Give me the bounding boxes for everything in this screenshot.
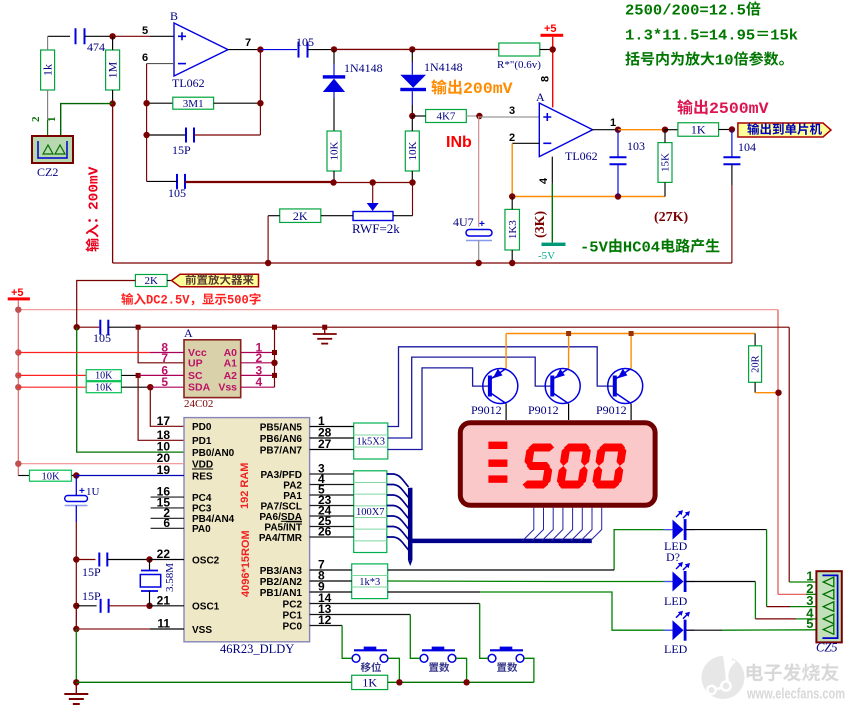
capacitor 104	[731, 130, 733, 158]
svg-text:PB1/AN1: PB1/AN1	[260, 588, 303, 599]
resistor 10K pullup SCL	[15, 372, 21, 378]
LED D2	[388, 580, 565, 583]
svg-text:46R23_DLDY: 46R23_DLDY	[220, 642, 294, 656]
tag from preamp	[172, 274, 259, 287]
resistor 15K	[658, 143, 672, 183]
node diode1 top	[331, 46, 337, 52]
wire ground down left	[75, 606, 77, 629]
wire pin2	[512, 142, 539, 144]
svg-text:A1: A1	[224, 357, 238, 369]
svg-text:15P: 15P	[82, 565, 101, 579]
wire Vcc row	[15, 349, 21, 355]
wire top rail	[334, 48, 412, 50]
node junction 1M bottom	[109, 100, 115, 106]
svg-text:PA1: PA1	[283, 491, 302, 502]
wires buttons to ground rail	[388, 658, 399, 682]
svg-text:PA5/INT: PA5/INT	[264, 522, 302, 533]
svg-text:+: +	[479, 219, 485, 230]
svg-text:A2: A2	[224, 370, 238, 382]
svg-text:7: 7	[245, 37, 251, 49]
capacitor 15P	[147, 134, 185, 136]
svg-text:PA6/SDA: PA6/SDA	[259, 512, 302, 523]
svg-text:A: A	[184, 326, 193, 340]
wires 24C02 right pins to ground column	[241, 352, 275, 354]
svg-text:PC2: PC2	[283, 599, 303, 610]
power +5 digital	[8, 297, 30, 300]
svg-text:2500/200=12.5: 2500/200=12.5	[625, 2, 746, 19]
display DS1	[460, 423, 655, 506]
svg-text:1U: 1U	[86, 486, 100, 498]
resistor 1M	[106, 50, 120, 90]
capacitor 103	[617, 130, 619, 157]
svg-text:103: 103	[627, 139, 645, 153]
resistor network 1k*3	[352, 564, 388, 599]
connector CZ2	[32, 136, 73, 163]
svg-text:+5: +5	[544, 23, 557, 35]
svg-text:PB3/AN3: PB3/AN3	[260, 566, 303, 577]
svg-text:1M: 1M	[106, 61, 120, 78]
label output 200mV	[431, 79, 513, 98]
label input 200mV	[86, 166, 103, 252]
diode D1 1N4148	[333, 49, 335, 64]
svg-text:200mV: 200mV	[87, 166, 103, 210]
svg-text:10K: 10K	[407, 141, 419, 160]
svg-text:+5: +5	[11, 287, 24, 299]
node 2K drop	[74, 324, 80, 330]
svg-text:-5V: -5V	[538, 250, 555, 262]
wire +5 right vertical to CZ5 pin2	[777, 310, 779, 595]
wire 105 to 24C02 UP pin7	[138, 327, 184, 363]
node INb	[476, 113, 482, 119]
wire node to opamp pin5	[113, 35, 150, 37]
svg-text:PB7/AN7: PB7/AN7	[260, 445, 303, 456]
wires PC2/PC1/PC0 to buttons	[310, 603, 480, 605]
ground symbol mid	[322, 325, 327, 330]
resistor network 100X7	[354, 471, 387, 553]
capacitor 474	[75, 28, 77, 44]
wire left ground column	[75, 560, 77, 606]
svg-text:www.elecfans.com: www.elecfans.com	[746, 687, 845, 703]
wire left feedback rail	[112, 104, 114, 263]
wire +5 horizontal rail	[18, 309, 778, 311]
svg-text:1N4148: 1N4148	[344, 61, 383, 75]
svg-text:PC0: PC0	[283, 621, 303, 632]
svg-text:PA3/PFD: PA3/PFD	[261, 470, 303, 481]
svg-text:Vss: Vss	[218, 382, 237, 394]
wire pin3	[479, 116, 539, 118]
svg-text:2K: 2K	[293, 209, 308, 223]
power -5V	[542, 243, 566, 246]
svg-text:3.58M: 3.58M	[164, 563, 176, 592]
power +5 analog	[541, 34, 564, 37]
svg-text:1k: 1k	[41, 64, 55, 76]
svg-text:8: 8	[540, 76, 552, 82]
potentiometer RWF=2k	[372, 183, 374, 204]
svg-text:2: 2	[30, 116, 42, 122]
svg-text:4K7: 4K7	[436, 111, 455, 123]
wires 1k5X3 to transistor bases	[388, 347, 614, 427]
resistor 10K reset	[18, 475, 29, 477]
svg-text:D?: D?	[666, 550, 680, 564]
wire collectors to display	[505, 404, 507, 420]
wire RES row	[76, 475, 184, 477]
display leading digit bars	[488, 442, 507, 449]
svg-text:RWF=2k: RWF=2k	[352, 221, 400, 236]
svg-text:PA2: PA2	[283, 480, 302, 491]
svg-text:20R: 20R	[751, 355, 762, 373]
wire CZ2 pin1 to node	[61, 104, 113, 136]
svg-text:15k: 15k	[770, 27, 798, 44]
svg-text:(3K): (3K)	[533, 210, 548, 238]
wire pin2 orange loop	[511, 143, 513, 196]
svg-text:VDD: VDD	[192, 460, 213, 471]
resistor 4K7	[426, 110, 467, 123]
wire feedback vertical	[259, 50, 261, 135]
capacitor 15P osc1	[73, 603, 79, 609]
svg-text:3M1: 3M1	[183, 98, 204, 110]
svg-text:PC3: PC3	[192, 504, 212, 515]
svg-text:200mV: 200mV	[463, 80, 513, 98]
svg-text:-5V: -5V	[580, 239, 608, 256]
transistor Q1 P9012	[483, 369, 518, 404]
resistor 1K3	[505, 209, 520, 250]
svg-text:12: 12	[318, 613, 332, 627]
wire VSS row	[73, 626, 79, 632]
resistor 10K pullup SDA	[15, 384, 21, 390]
svg-text:474: 474	[87, 40, 105, 54]
svg-text:1.3*11.5=14.95: 1.3*11.5=14.95	[625, 27, 755, 44]
svg-text:10: 10	[715, 52, 734, 69]
svg-text:2500mV: 2500mV	[709, 100, 769, 118]
svg-text:CZ5: CZ5	[816, 641, 838, 655]
capacitor 105 top	[260, 49, 297, 51]
svg-text:105: 105	[296, 35, 314, 49]
svg-text:11: 11	[157, 617, 170, 631]
resistor 1K bottom	[352, 675, 388, 689]
capacitor 15P osc2	[73, 556, 79, 562]
transistor Q2 P9012	[545, 369, 580, 404]
transistor Q3 P9012	[608, 369, 643, 404]
svg-text:6: 6	[142, 52, 148, 64]
wire 2K to bottom rail	[267, 216, 269, 263]
svg-text:10K: 10K	[329, 141, 341, 160]
button S3 set	[488, 654, 496, 662]
resistor network 1k5X3	[354, 423, 388, 459]
wire ground rail digital	[138, 326, 789, 328]
svg-text:10K: 10K	[95, 383, 113, 394]
svg-text:4: 4	[538, 177, 550, 184]
svg-text:DC2.5V: DC2.5V	[146, 294, 190, 308]
svg-text:10K: 10K	[41, 471, 60, 482]
svg-text:SC: SC	[188, 370, 203, 382]
svg-text:105: 105	[168, 186, 186, 200]
svg-text:5: 5	[161, 375, 168, 389]
svg-text:1: 1	[46, 117, 58, 123]
diode D2 1N4148	[411, 49, 413, 62]
capacitor 1U electrolytic	[75, 476, 77, 497]
IC U3 46R23_DLDY	[184, 418, 310, 642]
svg-text:LED: LED	[664, 642, 688, 656]
svg-text:P9012: P9012	[596, 403, 627, 417]
svg-text:P9012: P9012	[471, 403, 502, 417]
notes top right	[625, 1, 760, 19]
svg-text:1: 1	[610, 117, 616, 129]
label -5V produced by HC04	[580, 238, 719, 256]
svg-text:B: B	[170, 9, 178, 23]
svg-text:4096*15ROM: 4096*15ROM	[240, 530, 252, 597]
svg-text:TL062: TL062	[565, 149, 598, 163]
svg-text:1K3: 1K3	[507, 220, 519, 239]
svg-text:PA0: PA0	[192, 524, 211, 535]
wire +5 left rail	[17, 300, 19, 475]
svg-text:27: 27	[318, 437, 332, 451]
wire inverting column	[146, 64, 148, 182]
watermark elecfans	[702, 654, 745, 699]
svg-text:15K: 15K	[660, 153, 672, 172]
svg-text:PB2/AN2: PB2/AN2	[260, 577, 303, 588]
wires 100X7 to bus	[387, 474, 409, 487]
wire VDD row	[18, 463, 184, 465]
display segment wires to bus	[522, 508, 533, 541]
svg-text:105: 105	[93, 331, 111, 345]
wire ground rail bottom	[76, 681, 351, 683]
svg-text:10K: 10K	[95, 371, 113, 382]
svg-text:SDA: SDA	[188, 382, 211, 394]
node INa	[409, 113, 415, 119]
node pot arrow tap	[370, 179, 376, 185]
LED D3	[388, 591, 480, 593]
button S2 set	[420, 654, 428, 662]
wire emitter rail orange	[505, 334, 507, 369]
wire pin6	[147, 63, 174, 65]
svg-text:500: 500	[227, 294, 249, 308]
resistor 10K right	[405, 131, 419, 171]
svg-text:17: 17	[157, 414, 171, 428]
svg-text:(27K): (27K)	[654, 210, 689, 225]
svg-text:PC1: PC1	[283, 610, 303, 621]
svg-text:PD1: PD1	[192, 436, 212, 447]
node 103 bottom	[615, 193, 621, 199]
svg-text:1k5X3: 1k5X3	[356, 437, 385, 448]
svg-text:1K: 1K	[362, 675, 377, 689]
node 10K bottom / rail	[409, 179, 415, 185]
svg-text:22: 22	[157, 547, 171, 561]
stubs PC4 PC3 PB4 PA0	[151, 496, 184, 498]
svg-text:3: 3	[509, 105, 515, 117]
svg-text:PA4/TMR: PA4/TMR	[259, 533, 303, 544]
resistor 2K	[280, 209, 321, 223]
svg-text:PD0: PD0	[192, 422, 212, 433]
svg-text:21: 21	[157, 593, 171, 607]
bus horizontal	[408, 539, 592, 544]
label input DC2.5V	[121, 293, 260, 308]
svg-text:2: 2	[509, 132, 515, 144]
svg-text:PC4: PC4	[192, 493, 212, 504]
resistor 1K output	[678, 123, 719, 137]
wire output pin7	[228, 49, 260, 51]
svg-text:LED: LED	[664, 594, 688, 608]
wire SDA to PD0	[150, 387, 184, 426]
svg-text:4U7: 4U7	[453, 215, 474, 229]
svg-text:OSC1: OSC1	[192, 602, 220, 613]
node diode2 top	[409, 46, 415, 52]
svg-text:100X7: 100X7	[356, 507, 385, 518]
svg-text:RES: RES	[192, 471, 213, 482]
wire SCL to PD1	[138, 375, 184, 440]
svg-text:PB6/AN6: PB6/AN6	[260, 434, 303, 445]
resistor 2K input	[135, 275, 167, 287]
node junction C474/R1M	[109, 33, 115, 39]
svg-text:5: 5	[142, 25, 148, 37]
svg-text:INb: INb	[446, 134, 472, 151]
wire 2K to PB0 green	[77, 327, 184, 452]
svg-text:HC04: HC04	[623, 239, 660, 256]
svg-text:PB5/AN5: PB5/AN5	[260, 422, 303, 433]
wire bottom rail analog	[185, 182, 413, 184]
bus vertical	[408, 488, 413, 561]
svg-text:192 RAM: 192 RAM	[239, 463, 251, 509]
resistor 10K left	[327, 131, 341, 171]
svg-text:2K: 2K	[145, 275, 159, 287]
wire pin4	[551, 157, 553, 184]
tag to MCU	[738, 123, 831, 137]
LED D1	[614, 530, 671, 570]
crystal 3.58M	[149, 560, 151, 571]
button S1 move	[352, 654, 360, 662]
node output B	[257, 46, 263, 52]
resistor 20R	[754, 334, 756, 346]
svg-text:1K: 1K	[691, 123, 706, 137]
svg-text:TL062: TL062	[172, 76, 205, 90]
capacitor 4U7	[478, 116, 480, 227]
display digits 500	[520, 444, 556, 489]
svg-text:R*"(0.6v): R*"(0.6v)	[497, 59, 541, 71]
resistor 3M1	[147, 102, 173, 104]
resistor R*	[499, 43, 540, 56]
svg-text:VSS: VSS	[192, 625, 212, 636]
capacitor 105 lower	[176, 174, 178, 189]
connector CZ5	[816, 571, 841, 642]
svg-text:1N4148: 1N4148	[424, 60, 463, 74]
svg-text:15P: 15P	[82, 589, 101, 603]
capacitor 105 digital	[77, 326, 100, 328]
wire input node to C474	[48, 35, 70, 37]
svg-text:CZ2: CZ2	[37, 165, 58, 179]
wire to pot right	[412, 183, 414, 216]
svg-text:P9012: P9012	[528, 403, 559, 417]
svg-text:1k*3: 1k*3	[359, 577, 380, 588]
svg-text:UP: UP	[188, 357, 203, 369]
svg-text:15P: 15P	[172, 143, 191, 157]
svg-text:24C02: 24C02	[184, 398, 213, 410]
svg-text:OSC2: OSC2	[192, 555, 220, 566]
svg-text:104: 104	[738, 140, 756, 154]
svg-text:PB0/AN0: PB0/AN0	[192, 448, 235, 459]
resistor 1k	[41, 50, 55, 90]
label output 2500mV	[677, 99, 768, 118]
ground symbol bottom left	[75, 682, 77, 694]
svg-text:PA7/SCL: PA7/SCL	[261, 501, 303, 512]
svg-text:5: 5	[806, 616, 813, 631]
svg-text:A: A	[536, 90, 545, 104]
node 105/ground rail	[136, 325, 141, 330]
wire rail to CZ5 pin1	[788, 327, 790, 582]
svg-text:+: +	[79, 486, 85, 497]
node output 2500mV	[729, 126, 735, 132]
wire output pin1	[593, 129, 618, 131]
node 1K3 top	[509, 193, 515, 199]
